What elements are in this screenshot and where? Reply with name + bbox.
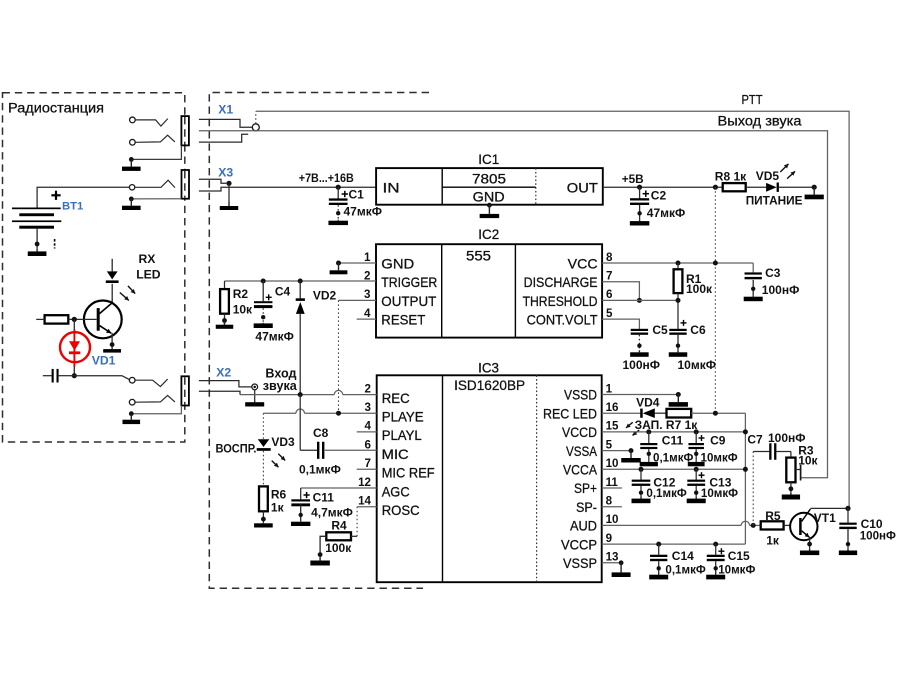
LED VD3	[258, 439, 270, 447]
ground R2	[224, 321, 226, 325]
ground C5	[638, 350, 640, 352]
svg-text:RX: RX	[139, 252, 157, 266]
resistor R1	[677, 263, 679, 269]
wire input point to ground	[254, 390, 256, 400]
svg-text:IC3: IC3	[478, 360, 499, 375]
wire REC line (Вход звука net) with hop	[240, 394, 334, 396]
capacitor C14	[658, 544, 660, 555]
wire +5V rail down (dotted)	[714, 187, 716, 413]
wire AUD line with hop	[602, 524, 742, 526]
wire 555 pin6 THRESHOLD	[602, 299, 678, 301]
svg-text:10мкФ: 10мкФ	[718, 563, 755, 576]
node audio junction (radio)	[72, 373, 77, 378]
wire C7 riser (dotted)	[752, 452, 754, 526]
svg-text:GND: GND	[381, 255, 414, 271]
svg-text:4: 4	[365, 420, 372, 433]
battery BT1 plus sign	[51, 194, 60, 196]
svg-text:ПИТАНИЕ: ПИТАНИЕ	[746, 194, 803, 208]
svg-text:0,1мкФ: 0,1мкФ	[653, 451, 693, 464]
node C4 junction	[261, 279, 266, 284]
wire ROSC to R4 (dotted)	[356, 507, 358, 537]
svg-text:100к: 100к	[686, 282, 713, 296]
wire X1 sleeve to ground	[131, 145, 181, 159]
svg-text:Выход звука: Выход звука	[718, 114, 802, 129]
node base/VD1 junction	[72, 317, 77, 322]
svg-text:IC1: IC1	[478, 152, 499, 167]
ground C13	[695, 497, 697, 499]
svg-text:VSSD: VSSD	[564, 387, 597, 403]
svg-text:RESET: RESET	[381, 312, 425, 328]
wire riser to PTT line (dotted)	[255, 111, 257, 123]
wire X2 sleeve to ground	[131, 406, 181, 414]
ground R4	[319, 558, 321, 561]
resistor R7	[667, 409, 692, 418]
ground C12	[640, 497, 642, 499]
wire VSSA to ground	[602, 450, 631, 452]
svg-text:MIC: MIC	[382, 446, 409, 462]
svg-text:3: 3	[365, 401, 372, 414]
svg-text:R5: R5	[765, 509, 781, 523]
wire SP+ stub	[602, 487, 622, 489]
node input point (circle with dot)	[252, 384, 258, 390]
svg-text:LED: LED	[136, 268, 161, 282]
dashed border over jack bodies	[184, 117, 186, 145]
svg-text:PTT: PTT	[742, 92, 763, 107]
svg-text:C11: C11	[313, 491, 335, 505]
wire VD1 to audio node	[73, 367, 75, 376]
resistor R2	[220, 289, 229, 314]
svg-text:5: 5	[606, 438, 613, 451]
ground C15	[715, 573, 717, 575]
connector X2 jack contacts (radio side)	[129, 377, 135, 383]
ground X2 sleeve	[130, 414, 132, 420]
svg-text:C15: C15	[728, 549, 750, 563]
svg-text:VSSA: VSSA	[566, 443, 598, 459]
svg-text:10мкФ: 10мкФ	[701, 487, 738, 500]
svg-text:C7: C7	[747, 432, 763, 446]
svg-text:5: 5	[606, 307, 613, 320]
wire 555 pin1 GND	[339, 262, 377, 264]
svg-text:10к: 10к	[233, 303, 253, 317]
wire node to X2 contact	[74, 376, 129, 380]
svg-text:звука: звука	[263, 379, 298, 393]
svg-text:MIC REF: MIC REF	[382, 465, 435, 481]
ground C14	[658, 573, 660, 575]
svg-text:REC LED: REC LED	[543, 405, 597, 421]
wire R3 to ground	[790, 482, 792, 493]
wire PLAYE to VD3 (dotted)	[262, 413, 264, 439]
svg-text:AUD: AUD	[570, 518, 597, 534]
svg-text:VSSP: VSSP	[563, 555, 597, 571]
ground C1	[337, 220, 339, 221]
wire X2 stub2 joining REC line	[199, 391, 240, 394]
node X1 PTT pin (open circle)	[252, 124, 259, 131]
svg-text:6: 6	[365, 438, 372, 451]
diode VD2 (up)	[299, 281, 301, 298]
wire collector to PTT node	[810, 507, 848, 509]
ground X1 sleeve	[130, 159, 132, 166]
wire R6 to ground	[262, 511, 264, 523]
op-amp IC3 ISD1620BP box	[377, 375, 602, 582]
resistor base (radio)	[45, 315, 69, 323]
wire X1 pin stubs to PTT node	[199, 119, 252, 127]
wire PTT line	[256, 111, 849, 508]
svg-text:BT1: BT1	[62, 200, 83, 212]
capacitor C13 (polarized)	[695, 469, 697, 480]
ground R6	[262, 522, 264, 524]
svg-text:0,1мкФ: 0,1мкФ	[646, 487, 686, 500]
svg-text:R6: R6	[271, 487, 287, 501]
svg-text:1к: 1к	[766, 534, 780, 548]
capacitor C10	[847, 508, 849, 522]
svg-text:0,1мкФ: 0,1мкФ	[665, 563, 705, 576]
ground VT1 emitter	[809, 549, 811, 551]
resistor R6	[259, 486, 268, 511]
wire R2 to ground	[224, 314, 226, 325]
wire battery plus to X3	[37, 187, 129, 208]
wire ROSC stub	[357, 506, 377, 508]
enclosure box Радиостанция (dashed)	[3, 93, 185, 442]
connector X1 jack body	[181, 116, 189, 145]
wire VD2 to REC node	[299, 314, 301, 395]
wire cap to node	[59, 375, 75, 377]
svg-text:VD2: VD2	[313, 288, 337, 302]
wire cap left stub	[43, 375, 52, 377]
svg-text:SP+: SP+	[574, 480, 597, 496]
svg-text:8: 8	[606, 251, 613, 264]
svg-text:VD4: VD4	[636, 396, 660, 410]
svg-text:100к: 100к	[325, 541, 352, 555]
svg-text:VCCA: VCCA	[563, 462, 598, 478]
svg-text:SP-: SP-	[576, 499, 597, 515]
svg-text:X2: X2	[216, 366, 231, 380]
wire X3 sleeve to ground	[131, 198, 181, 200]
wire battery minus to ground	[36, 229, 38, 249]
wire 555 pin4 RESET stub	[357, 318, 376, 320]
wire VCCD line	[602, 431, 746, 433]
svg-text:IN: IN	[383, 180, 400, 196]
wire junction down to VD1	[73, 319, 75, 330]
svg-text:IC2: IC2	[478, 227, 499, 242]
svg-text:C11: C11	[662, 434, 684, 448]
svg-text:VD5: VD5	[756, 169, 780, 183]
svg-text:2: 2	[365, 382, 371, 395]
svg-text:7: 7	[365, 457, 371, 470]
svg-text:C2: C2	[651, 189, 667, 203]
LED VD5	[766, 183, 777, 192]
svg-text:10мкФ: 10мкФ	[701, 451, 738, 464]
svg-text:10: 10	[606, 457, 619, 470]
wire base resistor left stub	[36, 318, 44, 320]
svg-text:12: 12	[358, 476, 371, 489]
capacitor C9 (polarized)	[695, 432, 697, 443]
svg-text:13: 13	[606, 551, 619, 564]
R3 tap to output	[796, 469, 801, 471]
svg-text:OUTPUT: OUTPUT	[381, 293, 436, 309]
ground battery	[36, 249, 38, 252]
wire C7 to R3	[790, 452, 792, 458]
svg-text:14: 14	[358, 495, 371, 508]
op-amp IC2 555 timer box	[376, 244, 602, 337]
svg-text:ВОСПР.: ВОСПР.	[216, 441, 257, 455]
capacitor C11 0.1мкФ (VCCD)	[648, 432, 650, 443]
svg-text:ЗАП. R7 1к: ЗАП. R7 1к	[635, 418, 699, 432]
wire PLAYE line with hop	[263, 412, 296, 414]
capacitor C15 (polarized)	[715, 544, 717, 555]
ground C11-4.7	[300, 520, 302, 523]
wire R8 to VD5	[746, 186, 766, 188]
svg-text:C3: C3	[765, 266, 781, 280]
svg-text:THRESHOLD: THRESHOLD	[523, 293, 598, 309]
svg-text:X3: X3	[218, 166, 233, 180]
svg-text:10: 10	[606, 513, 619, 526]
wire supply input to IC1 IN	[229, 186, 376, 188]
LED RX (diode down + bar)	[107, 271, 118, 279]
wire VSSD to ground	[602, 394, 679, 396]
svg-text:16: 16	[606, 401, 619, 414]
svg-text:47мкФ: 47мкФ	[255, 330, 293, 344]
resistor R8	[723, 183, 746, 191]
svg-text:X1: X1	[218, 102, 233, 116]
wire emitter to ground	[111, 333, 113, 349]
capacitor C1 (polarized)	[337, 187, 339, 198]
ground C2	[639, 220, 641, 221]
wire 555 pin7 DISCHARGE	[602, 282, 639, 301]
svg-text:C9: C9	[710, 434, 726, 448]
capacitor C12	[640, 469, 642, 480]
wire C8 left riser	[299, 395, 301, 451]
svg-text:VCC: VCC	[568, 255, 598, 271]
ground C3	[752, 295, 754, 298]
node X3 junction	[226, 181, 231, 186]
svg-text:4: 4	[364, 307, 371, 320]
svg-text:PLAYE: PLAYE	[382, 409, 424, 425]
capacitor C11 4.7мкФ (polarized)	[300, 488, 302, 499]
wire R1 bottom to threshold/C6	[677, 293, 679, 329]
svg-text:VD1: VD1	[92, 354, 116, 368]
svg-text:Радиостанция: Радиостанция	[8, 101, 104, 116]
LED VD1 (red, circled)	[60, 332, 90, 362]
svg-text:+7В...+16В: +7В...+16В	[299, 171, 354, 185]
wire X3 node to ground	[228, 183, 230, 201]
wire VCCA line	[602, 468, 746, 470]
wire SP- stub	[602, 506, 622, 508]
capacitor C8	[300, 449, 317, 451]
svg-text:VD3: VD3	[271, 435, 295, 449]
svg-text:8: 8	[606, 495, 613, 508]
svg-text:ISD1620BP: ISD1620BP	[454, 378, 525, 393]
resistor R3	[786, 458, 795, 483]
svg-text:VCCP: VCCP	[561, 536, 597, 552]
svg-text:R2: R2	[233, 287, 249, 301]
svg-text:C1: C1	[349, 187, 365, 201]
svg-text:OUT: OUT	[567, 181, 598, 197]
svg-text:C4: C4	[275, 284, 291, 298]
op-amp IC1 7805 regulator box	[376, 168, 603, 205]
wire X1 third stub	[199, 134, 248, 142]
svg-text:R4: R4	[331, 519, 347, 533]
svg-text:11: 11	[606, 476, 619, 489]
record arrows	[626, 422, 633, 428]
wire IC1 OUT to +5V rail	[603, 186, 723, 188]
svg-text:VCCD: VCCD	[562, 424, 597, 440]
capacitor C6 (polarized)	[669, 329, 686, 331]
wire R5 to VT1 base	[784, 524, 791, 526]
svg-text:7805: 7805	[472, 171, 506, 186]
wire VD5 to ground point	[779, 186, 814, 188]
node C1 junction	[336, 185, 341, 190]
wire X3 stub top to node	[199, 179, 226, 183]
capacitor C3	[752, 263, 754, 272]
svg-text:10мкФ: 10мкФ	[678, 358, 716, 372]
wire VD4 to R7	[655, 412, 667, 414]
ground C4	[262, 322, 264, 325]
svg-text:CONT.VOLT: CONT.VOLT	[527, 312, 598, 328]
svg-text:DISCHARGE: DISCHARGE	[524, 274, 598, 290]
svg-text:7: 7	[606, 270, 612, 283]
ground input point	[254, 400, 256, 402]
transistor VT1	[790, 513, 817, 540]
wire VCCP line	[602, 543, 746, 545]
svg-text:AGC: AGC	[382, 483, 410, 499]
ground C10	[847, 549, 849, 551]
wire RX LED top	[111, 259, 113, 272]
svg-text:555: 555	[466, 248, 491, 263]
svg-text:C8: C8	[313, 426, 329, 440]
wire base resistor to transistor base	[68, 318, 96, 320]
node trigger/R2	[224, 281, 226, 289]
capacitor coupling (radio)	[52, 369, 54, 383]
resistor R5	[761, 521, 784, 529]
svg-text:3: 3	[364, 288, 371, 301]
svg-text:100нФ: 100нФ	[860, 530, 896, 543]
svg-text:ROSC: ROSC	[382, 502, 420, 518]
connector X3 jack body	[182, 170, 190, 199]
svg-text:PLAYL: PLAYL	[382, 427, 422, 443]
svg-text:C5: C5	[652, 323, 668, 337]
wire MIC REF stub	[357, 468, 377, 470]
capacitor C2 (polarized)	[639, 187, 641, 198]
ground 555 pin1	[338, 263, 340, 270]
wire 555 pin3 OUTPUT stub	[339, 299, 377, 301]
svg-text:C6: C6	[690, 323, 706, 337]
wire OUTPUT to PLAYE (dotted riser)	[338, 300, 340, 413]
svg-text:0,1мкФ: 0,1мкФ	[299, 463, 341, 477]
resistor R4	[326, 532, 351, 540]
wire VD3 to R6 (dotted)	[262, 451, 264, 487]
connector X3 jack contact (radio side)	[129, 185, 134, 190]
wire REC LED to VD4	[602, 412, 642, 414]
battery BT1 minus mark	[54, 239, 56, 249]
wire X3 stub bottom joining supply wire	[199, 187, 229, 191]
wire GND pin to ground	[487, 203, 492, 208]
wire 555 pin2 TRIGGER	[225, 280, 377, 282]
node +5V rail junction	[713, 185, 718, 190]
svg-text:1к: 1к	[271, 501, 285, 515]
svg-text:TRIGGER: TRIGGER	[381, 274, 437, 290]
svg-text:15: 15	[606, 420, 619, 433]
node VD2 junction	[298, 279, 303, 284]
wire R7 to +5V rail	[691, 412, 745, 414]
LED VD5 light arrows	[780, 164, 788, 172]
wire PLAYL stub	[357, 431, 377, 433]
ground X3 sleeve	[130, 199, 132, 206]
capacitor C5	[631, 329, 648, 331]
svg-text:REC: REC	[382, 390, 410, 406]
capacitor C4 (polarized)	[262, 281, 264, 301]
wire AGC line	[301, 487, 377, 489]
enclosure main unit (dashed, partial)	[209, 93, 429, 589]
svg-text:GND: GND	[473, 189, 505, 204]
svg-text:9: 9	[606, 532, 613, 545]
battery BT1 plates	[12, 208, 61, 210]
transistor Q1 (radio)	[84, 301, 122, 339]
svg-text:100нФ: 100нФ	[762, 283, 800, 297]
ground C6	[677, 350, 679, 352]
wire 555 pin8 VCC line	[602, 262, 753, 264]
svg-text:4,7мкФ: 4,7мкФ	[311, 505, 353, 519]
wire Выход звука line	[199, 131, 828, 478]
wire emitter to ground	[809, 537, 811, 549]
svg-text:R8 1к: R8 1к	[715, 169, 747, 183]
svg-text:100нФ: 100нФ	[623, 358, 661, 372]
node C2 junction	[637, 185, 642, 190]
ground X3 node	[228, 202, 230, 207]
wire LED to transistor collector	[111, 284, 113, 303]
svg-text:VT1: VT1	[814, 511, 836, 525]
ground R3	[790, 493, 792, 495]
LED RX light arrows	[128, 286, 135, 294]
svg-text:1: 1	[606, 382, 613, 395]
wire 555 pin5 CONT.VOLT to C5	[602, 319, 639, 329]
wire R4 left to ground	[320, 536, 326, 557]
capacitor C7	[753, 451, 769, 453]
connector X1 jack contacts (radio side)	[130, 117, 136, 123]
svg-text:47мкФ: 47мкФ	[344, 205, 382, 219]
wire X2 stub1 to input point	[199, 381, 252, 387]
svg-text:47мкФ: 47мкФ	[647, 206, 685, 220]
svg-text:+5В: +5В	[622, 172, 644, 186]
ground VD5	[813, 187, 815, 194]
diode VD4 (left)	[640, 409, 643, 418]
wire VSSP to ground	[602, 562, 621, 564]
LED VD3 light arrows	[278, 454, 285, 461]
svg-text:1: 1	[364, 251, 371, 264]
connector X2 jack body	[181, 376, 189, 405]
wire +5V distribution vertical	[744, 413, 746, 544]
ground transistor emitter	[111, 347, 113, 350]
svg-text:6: 6	[606, 288, 613, 301]
svg-text:C14: C14	[672, 549, 694, 563]
